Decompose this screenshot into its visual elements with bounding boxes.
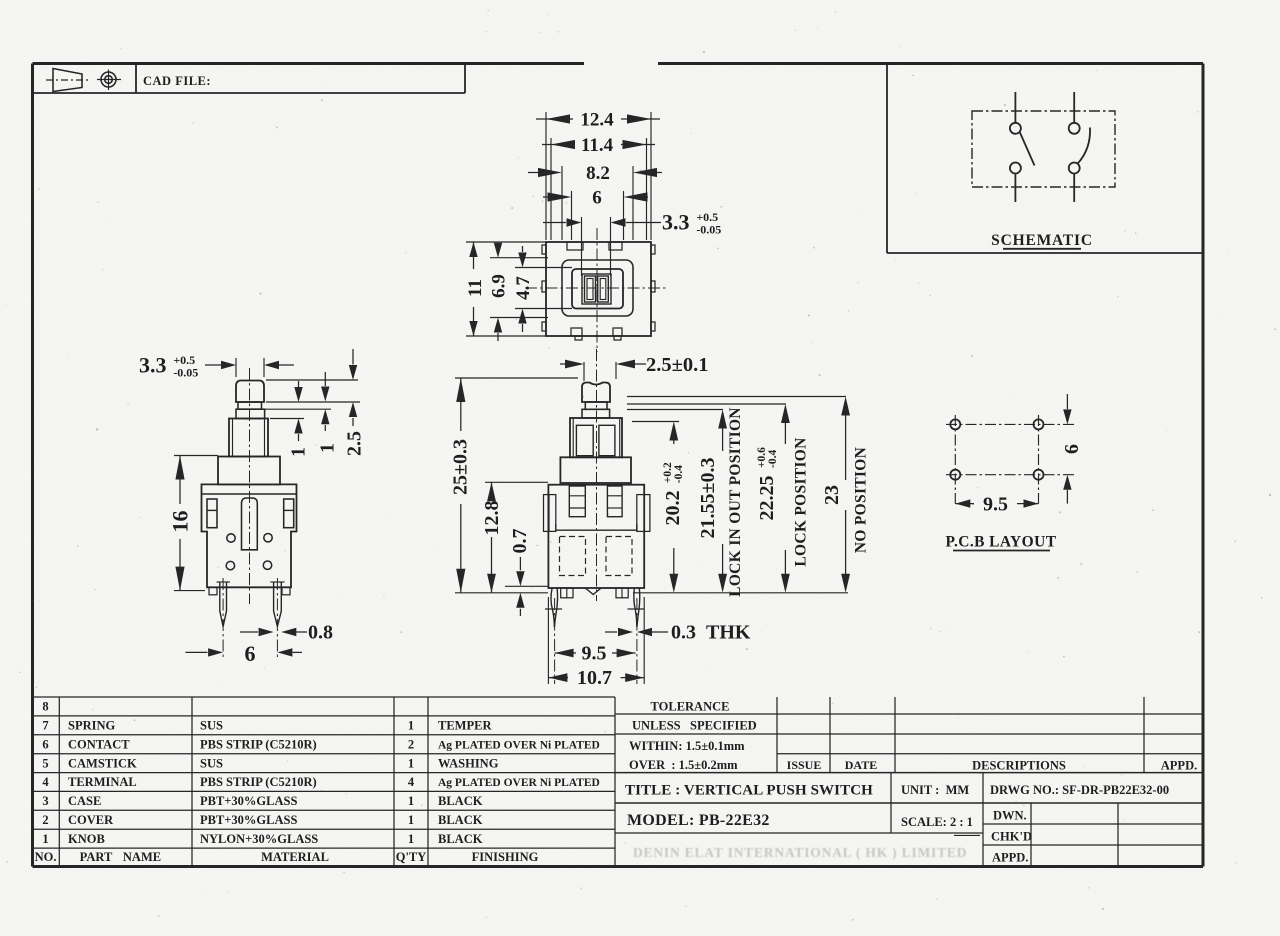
svg-text:TOLERANCE: TOLERANCE (651, 700, 730, 714)
svg-text:2.5±0.1: 2.5±0.1 (646, 354, 709, 376)
svg-text:PBS STRIP (C5210R): PBS STRIP (C5210R) (200, 775, 317, 789)
svg-text:11.4: 11.4 (581, 135, 614, 156)
svg-text:WITHIN: 1.5±0.1mm: WITHIN: 1.5±0.1mm (629, 739, 745, 753)
svg-text:PBT+30%GLASS: PBT+30%GLASS (200, 813, 297, 827)
svg-text:7: 7 (42, 719, 48, 733)
svg-text:CAMSTICK: CAMSTICK (68, 756, 137, 770)
svg-text:6.9: 6.9 (489, 274, 510, 298)
svg-text:12.4: 12.4 (580, 110, 614, 131)
svg-text:MATERIAL: MATERIAL (261, 850, 329, 864)
svg-text:SUS: SUS (200, 756, 223, 770)
svg-text:CAD FILE:: CAD FILE: (143, 74, 211, 88)
svg-text:1: 1 (408, 756, 414, 770)
svg-text:TITLE : VERTICAL PUSH SWITCH: TITLE : VERTICAL PUSH SWITCH (625, 783, 873, 799)
svg-text:MODEL: PB-22E32: MODEL: PB-22E32 (627, 812, 770, 829)
svg-text:NO POSITION: NO POSITION (852, 447, 869, 553)
svg-text:BLACK: BLACK (438, 813, 483, 827)
svg-text:6: 6 (1061, 444, 1083, 454)
svg-text:1: 1 (42, 832, 48, 846)
svg-text:3.3: 3.3 (662, 210, 690, 235)
svg-text:SUS: SUS (200, 719, 223, 733)
svg-text:4: 4 (42, 775, 49, 789)
svg-text:NYLON+30%GLASS: NYLON+30%GLASS (200, 832, 318, 846)
svg-text:SCALE: 2 : 1: SCALE: 2 : 1 (901, 815, 973, 829)
svg-text:DWN.: DWN. (993, 809, 1027, 823)
svg-text:8.2: 8.2 (586, 163, 610, 184)
svg-text:DRWG NO.: SF-DR-PB22E32-00: DRWG NO.: SF-DR-PB22E32-00 (990, 783, 1169, 797)
svg-text:-0.05: -0.05 (173, 365, 198, 379)
svg-text:FINISHING: FINISHING (472, 850, 539, 864)
svg-text:3.3: 3.3 (139, 353, 167, 378)
svg-text:DENIN ELAT INTERNATIONAL ( HK: DENIN ELAT INTERNATIONAL ( HK ) LIMITED (633, 845, 967, 860)
svg-text:-0.4: -0.4 (673, 465, 685, 483)
svg-text:Ag PLATED OVER Ni PLATED: Ag PLATED OVER Ni PLATED (438, 777, 600, 789)
svg-text:1: 1 (408, 813, 414, 827)
svg-text:NO.: NO. (35, 850, 57, 864)
svg-text:-0.05: -0.05 (696, 222, 721, 236)
svg-text:UNIT : MM: UNIT : MM (901, 783, 969, 797)
svg-text:LOCK POSITION: LOCK POSITION (792, 437, 809, 566)
svg-text:6: 6 (42, 738, 48, 752)
svg-text:0.3 THK: 0.3 THK (671, 622, 751, 644)
svg-text:10.7: 10.7 (577, 667, 612, 689)
svg-text:23: 23 (821, 485, 843, 505)
svg-text:SPRING: SPRING (68, 719, 116, 733)
svg-text:2.5: 2.5 (344, 431, 366, 456)
svg-text:KNOB: KNOB (68, 832, 105, 846)
svg-text:PBS STRIP (C5210R): PBS STRIP (C5210R) (200, 738, 317, 752)
svg-text:CHK'D: CHK'D (991, 830, 1032, 844)
svg-text:8: 8 (42, 700, 48, 714)
svg-text:CONTACT: CONTACT (68, 738, 130, 752)
svg-text:UNLESS SPECIFIED: UNLESS SPECIFIED (632, 719, 757, 733)
svg-text:LOCK IN OUT POSITION: LOCK IN OUT POSITION (727, 407, 744, 597)
svg-text:CASE: CASE (68, 794, 101, 808)
svg-text:5: 5 (42, 756, 48, 770)
svg-text:12.8: 12.8 (481, 501, 503, 536)
svg-text:COVER: COVER (68, 813, 114, 827)
svg-text:ISSUE: ISSUE (787, 758, 822, 772)
svg-text:DESCRIPTIONS: DESCRIPTIONS (972, 759, 1066, 773)
svg-text:PART: PART (80, 850, 113, 864)
svg-text:22.25: 22.25 (756, 476, 778, 521)
svg-text:21.55±0.3: 21.55±0.3 (697, 458, 719, 539)
svg-text:NAME: NAME (123, 850, 161, 864)
svg-text:P.C.B LAYOUT: P.C.B LAYOUT (946, 534, 1057, 551)
svg-text:DATE: DATE (845, 758, 877, 772)
svg-text:2: 2 (408, 738, 414, 752)
svg-text:6: 6 (592, 188, 602, 209)
svg-text:1: 1 (408, 794, 414, 808)
svg-text:SCHEMATIC: SCHEMATIC (991, 232, 1093, 249)
svg-text:9.5: 9.5 (983, 494, 1008, 516)
svg-text:3: 3 (42, 794, 48, 808)
svg-text:OVER : 1.5±0.2mm: OVER : 1.5±0.2mm (629, 758, 738, 772)
svg-text:1: 1 (317, 443, 339, 453)
svg-text:Q'TY: Q'TY (396, 850, 427, 864)
svg-text:TEMPER: TEMPER (438, 719, 492, 733)
svg-text:WASHING: WASHING (438, 756, 499, 770)
svg-text:PBT+30%GLASS: PBT+30%GLASS (200, 794, 297, 808)
svg-text:20.2: 20.2 (662, 491, 684, 526)
svg-text:0.7: 0.7 (509, 529, 531, 554)
svg-text:Ag PLATED OVER Ni PLATED: Ag PLATED OVER Ni PLATED (438, 740, 600, 752)
svg-text:BLACK: BLACK (438, 832, 483, 846)
svg-text:2: 2 (42, 813, 48, 827)
svg-text:4: 4 (408, 775, 415, 789)
svg-text:0.8: 0.8 (308, 622, 333, 644)
svg-text:TERMINAL: TERMINAL (68, 775, 137, 789)
svg-text:6: 6 (245, 641, 256, 666)
svg-text:9.5: 9.5 (582, 643, 607, 665)
svg-text:1: 1 (408, 719, 414, 733)
svg-text:25±0.3: 25±0.3 (450, 439, 472, 495)
svg-text:11: 11 (465, 279, 486, 297)
svg-text:1: 1 (288, 447, 310, 457)
svg-text:16: 16 (168, 511, 193, 533)
svg-text:APPD.: APPD. (1161, 759, 1197, 773)
svg-text:APPD.: APPD. (992, 851, 1028, 865)
svg-text:-0.4: -0.4 (767, 450, 779, 468)
svg-text:1: 1 (408, 832, 414, 846)
svg-text:BLACK: BLACK (438, 794, 483, 808)
svg-text:4.7: 4.7 (513, 276, 534, 300)
